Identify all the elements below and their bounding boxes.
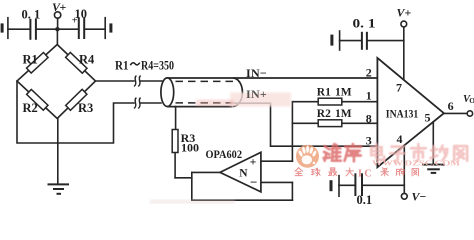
svg-text:7: 7	[396, 80, 402, 94]
svg-text:0. 1: 0. 1	[353, 17, 376, 31]
svg-text:3: 3	[366, 134, 372, 148]
svg-text:1M: 1M	[335, 108, 352, 120]
svg-text:+: +	[250, 156, 257, 168]
svg-text:R2: R2	[23, 101, 38, 115]
svg-text:1: 1	[366, 89, 372, 103]
svg-text:OPA602: OPA602	[206, 147, 243, 161]
svg-text:−: −	[250, 175, 257, 190]
svg-text:R3: R3	[78, 101, 93, 115]
svg-text:8: 8	[366, 112, 372, 126]
svg-text:R4=350: R4=350	[141, 59, 174, 73]
svg-text:R4: R4	[79, 53, 95, 67]
svg-text:WWW.DZSC.COM: WWW.DZSC.COM	[372, 159, 460, 168]
svg-text:4: 4	[397, 132, 403, 146]
svg-text:R1: R1	[23, 53, 38, 67]
svg-text:1M: 1M	[335, 86, 352, 98]
svg-text:5: 5	[425, 110, 431, 124]
svg-text:R1: R1	[115, 59, 129, 73]
svg-text:2: 2	[366, 66, 372, 80]
svg-text:I C: I C	[358, 168, 372, 179]
svg-text:0.1: 0.1	[357, 193, 373, 204]
svg-text:R2: R2	[317, 108, 331, 120]
svg-text:R1: R1	[317, 86, 331, 98]
svg-text:IN+: IN+	[246, 87, 267, 101]
svg-text:N: N	[239, 168, 248, 180]
svg-text:INA131: INA131	[386, 108, 419, 120]
svg-text:100: 100	[181, 140, 199, 154]
svg-text:+: +	[405, 6, 412, 20]
svg-text:IN−: IN−	[246, 66, 267, 80]
svg-text:O: O	[469, 96, 474, 105]
svg-text:+: +	[60, 0, 67, 14]
svg-text:0. 1: 0. 1	[22, 7, 41, 21]
svg-text:−: −	[420, 190, 427, 204]
svg-text:+: +	[72, 15, 78, 26]
svg-text:6: 6	[448, 99, 454, 113]
